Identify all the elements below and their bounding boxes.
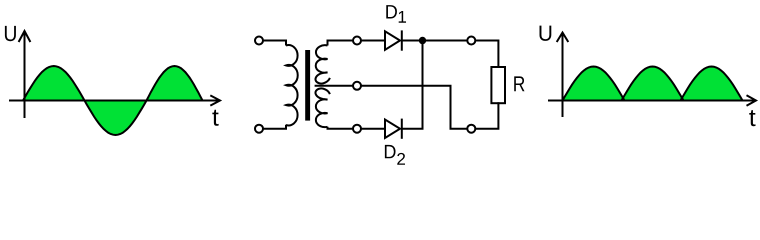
- diode D2 cathode bar: [401, 119, 403, 139]
- wire: output top to resistor top: [475, 41, 498, 69]
- left graph y-axis: [19, 31, 31, 118]
- node: diode cathodes junction: [419, 37, 426, 44]
- terminal: secondary top: [353, 37, 361, 45]
- right graph label U: [540, 26, 552, 41]
- right output waveform: hump 3 curve: [681, 67, 743, 101]
- right output waveform: hump 2 fill: [622, 67, 684, 101]
- wire: secondary bottom to D2 anode: [361, 128, 385, 130]
- wire: node to output top terminal: [423, 40, 468, 42]
- transformer T1 secondary winding upper half: [315, 45, 329, 83]
- wire: secondary top lead: [328, 41, 354, 46]
- wire: secondary top to D1 anode: [361, 40, 385, 42]
- transformer T1 primary winding: [286, 45, 298, 125]
- wire: D2 cathode up to node: [402, 41, 423, 129]
- right graph label t: [749, 110, 755, 126]
- diode D1 cathode bar: [401, 30, 403, 50]
- terminal: output top: [467, 37, 475, 45]
- right output waveform: hump 2 curve: [622, 67, 684, 101]
- left graph label U: [5, 26, 16, 41]
- transformer T1 secondary winding lower half: [315, 88, 329, 127]
- left input waveform: green sine fill: [23, 66, 203, 135]
- diode D1: [385, 31, 400, 50]
- wire: secondary center tap lead: [315, 85, 353, 87]
- terminal: secondary bottom: [353, 125, 361, 133]
- wire: primary bottom lead: [263, 125, 286, 129]
- label R: [514, 76, 524, 91]
- wire: secondary bottom lead: [328, 127, 354, 129]
- right output waveform: hump 1 fill: [563, 67, 625, 101]
- right output waveform: hump 1 curve: [563, 67, 625, 101]
- right output waveform: hump 3 fill: [681, 67, 743, 101]
- transformer core: [305, 50, 310, 121]
- terminal: primary bottom: [255, 125, 263, 133]
- right graph x-axis: [548, 95, 756, 106]
- left graph x-axis: [9, 95, 220, 105]
- left input waveform: sine curve: [23, 66, 203, 135]
- terminal: primary top: [255, 37, 263, 45]
- terminal: secondary center tap: [353, 82, 361, 90]
- diode D2: [385, 120, 400, 139]
- wire: primary top lead: [263, 41, 286, 46]
- wire: D1 cathode to node: [402, 40, 423, 42]
- right graph y-axis: [557, 33, 569, 118]
- wire: resistor bottom to output bottom: [475, 102, 498, 129]
- resistor R: [491, 67, 505, 103]
- terminal: output bottom: [467, 125, 475, 133]
- wire: center tap down-leg to output bottom: [361, 86, 467, 129]
- label D1: [386, 5, 397, 18]
- label D2: [385, 145, 396, 158]
- left graph label t: [212, 110, 218, 126]
